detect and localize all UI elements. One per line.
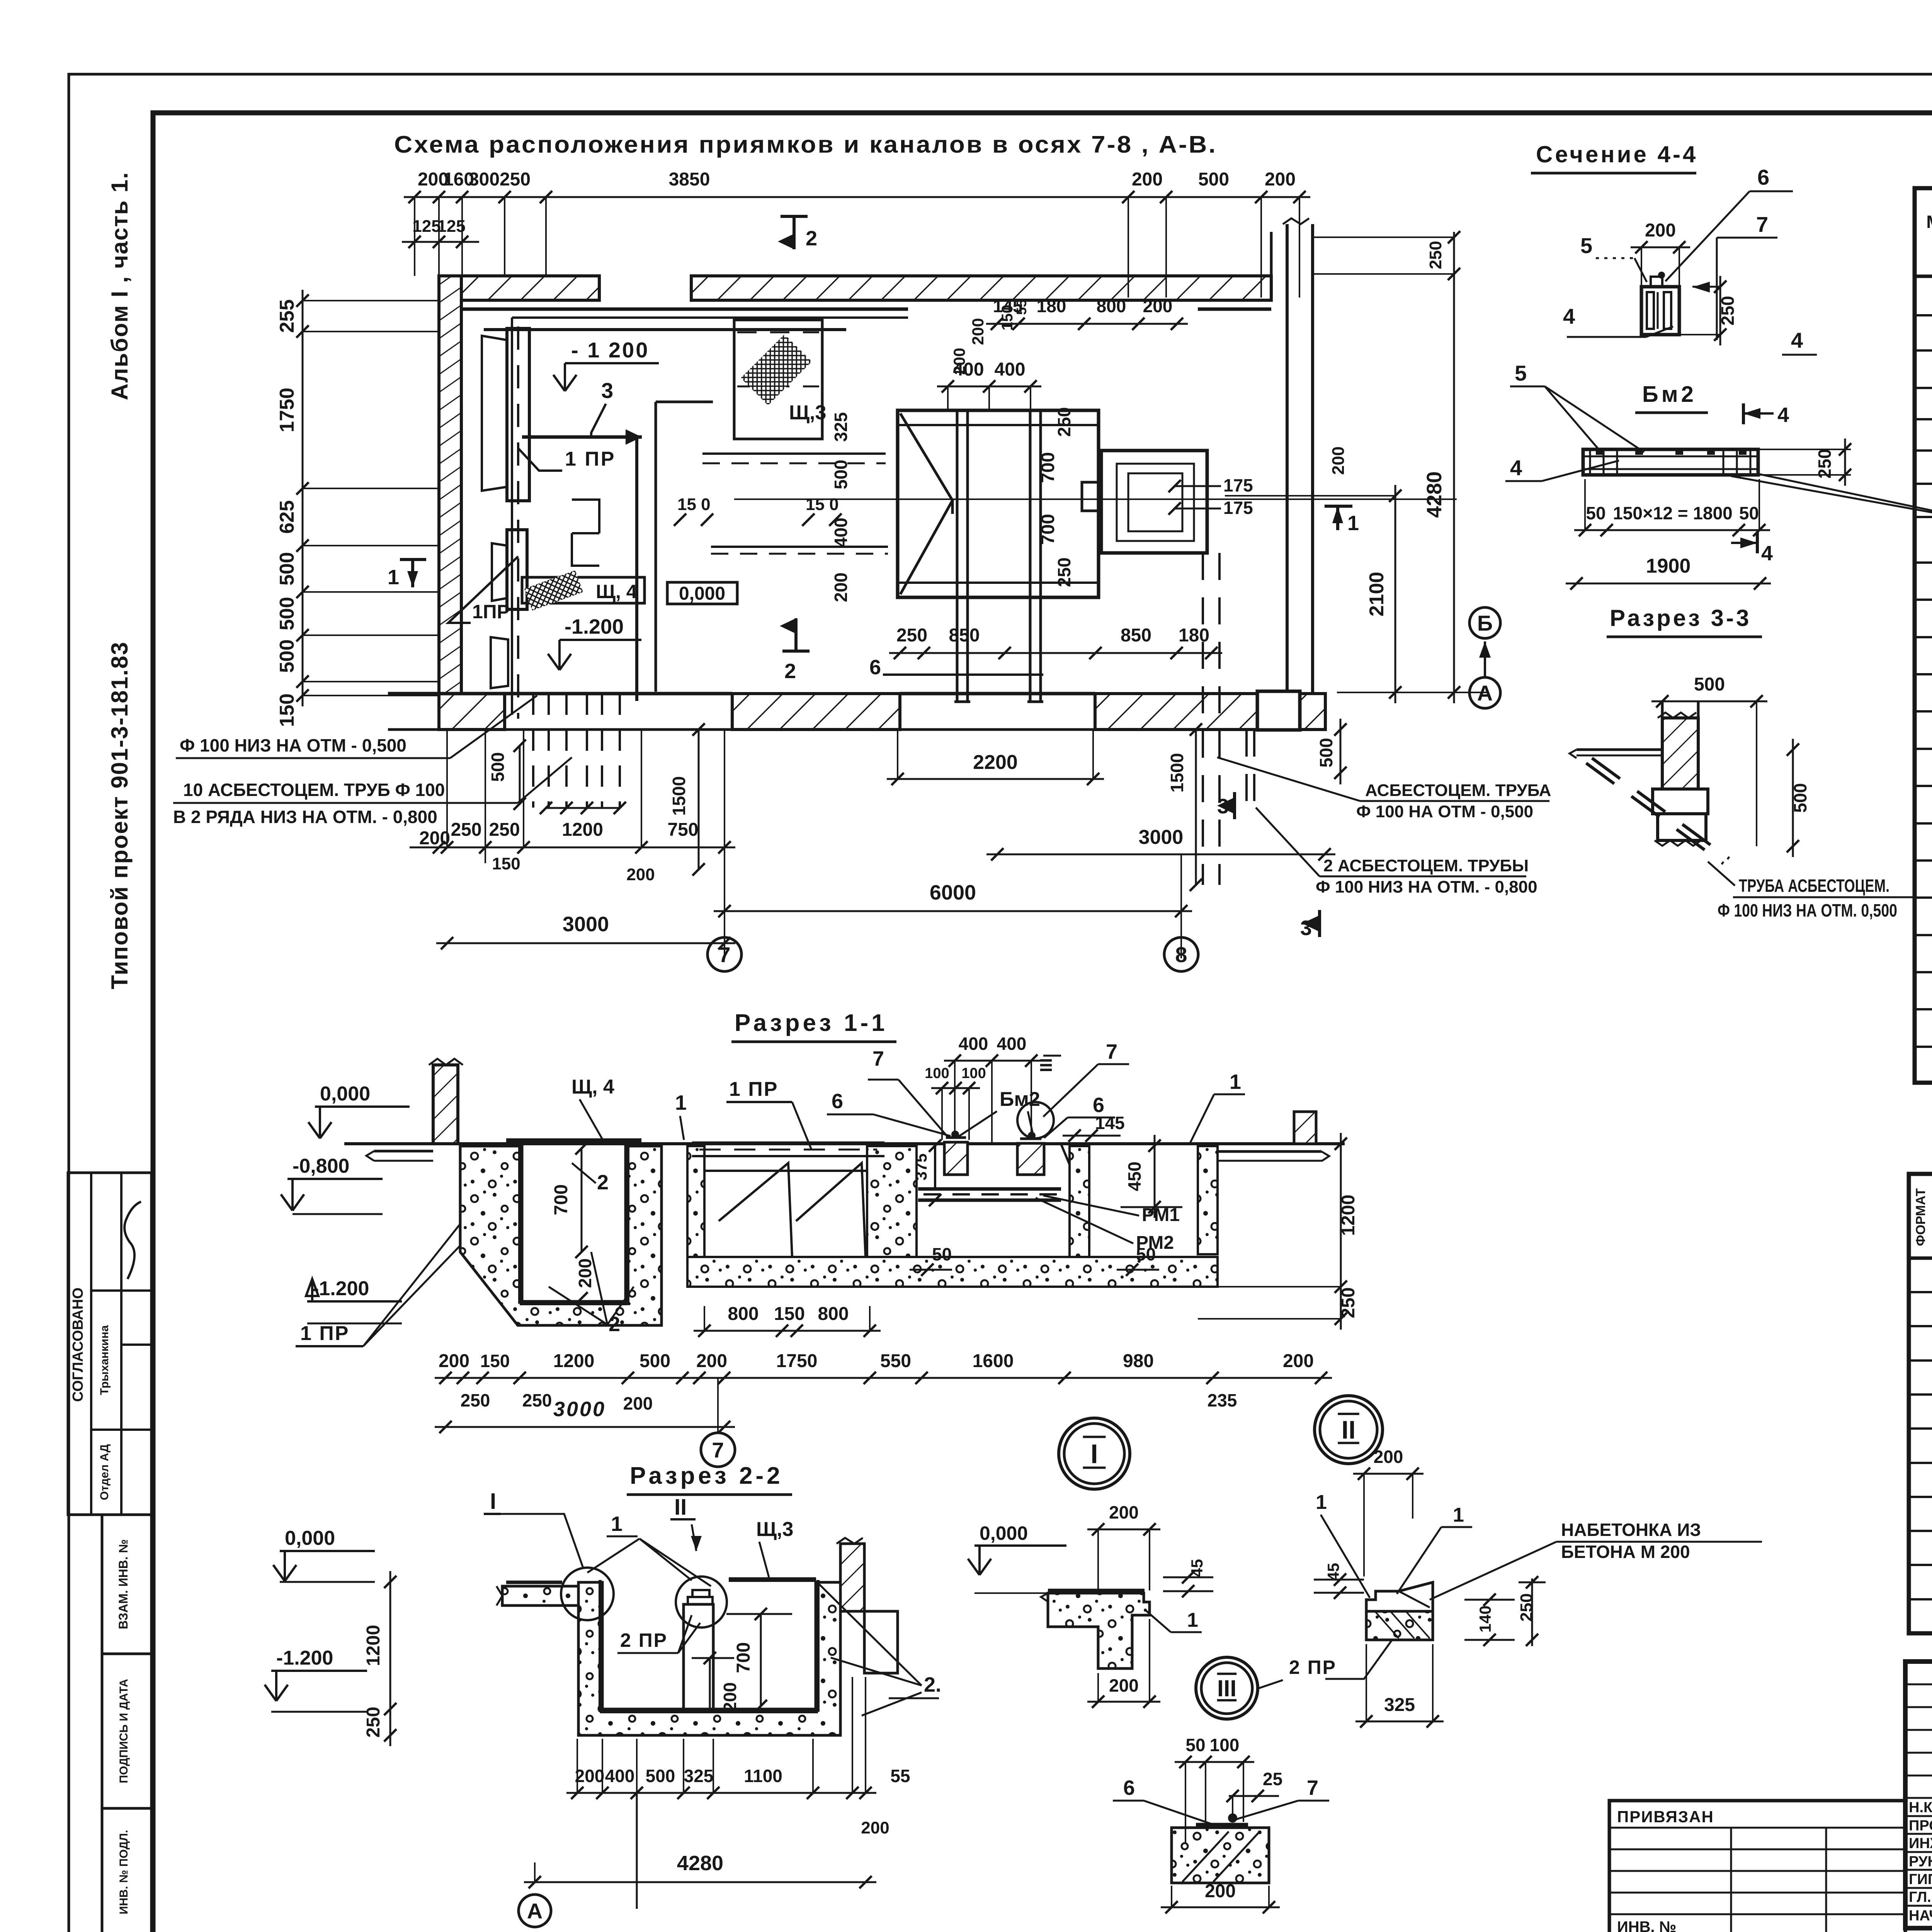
plan right pit notch — [1082, 482, 1101, 511]
svg-text:50: 50 — [1739, 503, 1759, 523]
svg-text:200: 200 — [1329, 446, 1348, 474]
beam Bm2 section mark 4 top — [1742, 403, 1745, 424]
svg-text:1100: 1100 — [744, 1766, 782, 1786]
razrez 1-1 dim 800 150 800 — [694, 1330, 881, 1332]
plan panel Shch4 band — [522, 577, 645, 603]
svg-text:200: 200 — [861, 1818, 889, 1837]
svg-text:45: 45 — [1324, 1563, 1342, 1581]
plan channel pipes left pair — [956, 410, 959, 702]
margin stamp soglasovano box — [68, 1173, 151, 1515]
table2 grid — [1909, 1174, 1932, 1633]
svg-text:2100: 2100 — [1366, 572, 1388, 617]
svg-text:375: 375 — [912, 1153, 930, 1180]
svg-text:250: 250 — [500, 169, 531, 190]
svg-text:4: 4 — [1791, 328, 1803, 352]
svg-text:2 АСБЕСТОЦЕМ. ТРУБЫ: 2 АСБЕСТОЦЕМ. ТРУБЫ — [1323, 856, 1529, 875]
razrez 1-1 middle channel cover 1pr — [692, 1141, 884, 1145]
svg-text:4: 4 — [1761, 542, 1773, 565]
svg-text:-1.200: -1.200 — [312, 1277, 369, 1300]
svg-text:150×12 = 1800: 150×12 = 1800 — [1613, 503, 1733, 523]
razrez 1-1 Bm2 channel box — [935, 1144, 1082, 1194]
svg-text:III: III — [1217, 1675, 1236, 1701]
title block name rows — [1905, 1815, 1932, 1817]
svg-text:4: 4 — [1510, 456, 1522, 480]
svg-text:Н.КОНТР.: Н.КОНТР. — [1909, 1799, 1932, 1816]
detail view III circle — [1196, 1657, 1258, 1719]
plan dim 250 850 850 180 — [889, 652, 1222, 654]
svg-text:1: 1 — [1187, 1609, 1198, 1631]
razrez 2-2 central pier — [684, 1604, 713, 1709]
svg-text:700: 700 — [551, 1184, 571, 1215]
svg-text:Сечение 4-4: Сечение 4-4 — [1536, 141, 1698, 167]
beam Bm2 section mark 4 bottom — [1756, 532, 1759, 553]
section 4-4 dim 200 — [1631, 247, 1690, 248]
svg-text:150: 150 — [774, 1304, 805, 1324]
svg-text:400: 400 — [994, 359, 1025, 380]
svg-text:1200: 1200 — [553, 1351, 595, 1371]
svg-text:300: 300 — [469, 169, 500, 190]
plan dim top chain — [404, 196, 1310, 198]
svg-text:250: 250 — [1517, 1593, 1536, 1621]
svg-text:325: 325 — [831, 412, 851, 442]
plan axis circle 8 — [1164, 937, 1198, 971]
razrez 1-1 middle channel braces — [719, 1163, 792, 1257]
svg-text:1500: 1500 — [1167, 753, 1187, 793]
svg-text:6: 6 — [869, 656, 881, 679]
svg-text:Бм2: Бм2 — [1000, 1088, 1040, 1111]
razrez 2-2 detail circle II mark — [676, 1577, 727, 1628]
svg-text:15 0: 15 0 — [806, 495, 839, 514]
plan panel Shch3 crosshatch blob — [741, 334, 812, 405]
svg-text:250: 250 — [896, 625, 927, 646]
plan dim 400 400 over channel — [937, 386, 1041, 388]
svg-text:980: 980 — [1123, 1351, 1154, 1371]
margin stamp inv podl box — [102, 1808, 151, 1932]
svg-text:1: 1 — [675, 1091, 687, 1114]
svg-text:II: II — [674, 1495, 687, 1520]
svg-text:1 ПР: 1 ПР — [300, 1322, 349, 1345]
svg-text:Щ,3: Щ,3 — [756, 1518, 793, 1541]
razrez 1-1 dim right 1200 250 — [1340, 1133, 1342, 1330]
svg-text:ИНВ. №: ИНВ. № — [1617, 1918, 1676, 1932]
svg-text:250: 250 — [1054, 407, 1074, 437]
svg-text:0,000: 0,000 — [980, 1522, 1028, 1544]
plan dim 145 180 800 200 row — [986, 323, 1188, 325]
svg-text:1: 1 — [611, 1512, 622, 1536]
svg-text:125: 125 — [412, 217, 440, 236]
margin stamp podpis box — [102, 1654, 151, 1808]
svg-text:Ф 100 НА ОТМ - 0,500: Ф 100 НА ОТМ - 0,500 — [1356, 802, 1533, 821]
razrez 2-2 pit inner outline — [599, 1580, 602, 1712]
svg-text:250: 250 — [1054, 558, 1074, 587]
svg-text:15 0: 15 0 — [677, 495, 711, 514]
svg-text:Разрез 3-3: Разрез 3-3 — [1610, 605, 1751, 631]
beam Bm2 dim 1900 — [1566, 583, 1771, 585]
svg-text:-0,800: -0,800 — [293, 1155, 349, 1177]
razrez 1-1 far pit walls — [1198, 1146, 1218, 1254]
svg-text:ВЗАМ. ИНВ. №: ВЗАМ. ИНВ. № — [116, 1539, 130, 1629]
razrez 2-2 cover plate top — [729, 1577, 816, 1582]
svg-text:500: 500 — [1198, 169, 1229, 190]
svg-text:РМ1: РМ1 — [1142, 1205, 1180, 1225]
plan wall bottom edge lines — [388, 692, 732, 696]
razrez 1-1 middle channel right wall — [867, 1146, 917, 1257]
svg-text:800: 800 — [1097, 296, 1126, 316]
svg-text:200: 200 — [1265, 169, 1296, 190]
svg-text:850: 850 — [949, 625, 980, 646]
svg-text:4280: 4280 — [1423, 471, 1446, 518]
svg-text:2: 2 — [784, 660, 796, 683]
plan axis circle 7 — [707, 937, 742, 971]
detail II drawing — [1366, 1582, 1433, 1611]
razrez 2-2 pit concrete U — [578, 1582, 840, 1735]
svg-text:200: 200 — [626, 865, 655, 884]
svg-text:700: 700 — [1038, 452, 1058, 483]
svg-text:500: 500 — [831, 460, 851, 490]
svg-text:400: 400 — [997, 1034, 1027, 1054]
svg-text:250: 250 — [1718, 296, 1738, 326]
svg-text:1 ПР: 1 ПР — [729, 1078, 778, 1100]
svg-text:ПРИВЯЗАН: ПРИВЯЗАН — [1617, 1808, 1714, 1826]
svg-text:700: 700 — [733, 1642, 754, 1673]
svg-text:МАРКА: МАРКА — [1926, 212, 1932, 232]
section 4-4 column detail — [1641, 287, 1679, 335]
svg-text:1200: 1200 — [562, 820, 603, 840]
svg-text:Отдел АД: Отдел АД — [98, 1444, 111, 1500]
svg-text:ГИП: ГИП — [1909, 1871, 1932, 1888]
svg-text:325: 325 — [684, 1766, 714, 1786]
svg-text:1: 1 — [388, 566, 399, 589]
plan axis circles B A — [1469, 607, 1500, 638]
detail view I circle — [1059, 1418, 1130, 1489]
svg-text:ТРУБА АСБЕСТОЦЕМ.: ТРУБА АСБЕСТОЦЕМ. — [1739, 876, 1889, 896]
svg-text:2: 2 — [597, 1171, 609, 1194]
razrez 2-2 dim 4280 — [524, 1881, 876, 1883]
svg-text:100: 100 — [961, 1065, 986, 1082]
svg-text:А: А — [1477, 681, 1493, 705]
svg-text:Альбом I , часть 1.: Альбом I , часть 1. — [107, 172, 133, 400]
svg-text:180: 180 — [1037, 296, 1066, 316]
svg-text:500: 500 — [276, 597, 298, 631]
svg-text:200: 200 — [1132, 169, 1163, 190]
svg-text:800: 800 — [818, 1304, 849, 1324]
svg-text:1: 1 — [1453, 1504, 1464, 1526]
svg-text:5: 5 — [1515, 361, 1527, 385]
plan dim 3000 right — [986, 854, 1335, 855]
razrez 1-1 Bm2 zone beams — [944, 1142, 968, 1175]
svg-text:- 1 200: - 1 200 — [571, 338, 649, 362]
svg-text:500: 500 — [276, 552, 298, 586]
beam Bm2 dim 250 — [1844, 439, 1846, 486]
plan beam dashed lines across — [702, 452, 886, 455]
razrez 1-1 left floor ledge — [374, 1150, 433, 1153]
svg-text:250: 250 — [363, 1707, 384, 1738]
svg-text:250: 250 — [1338, 1287, 1359, 1318]
plan section mark 2 top — [793, 216, 796, 249]
plan lintel 1pr lower — [491, 637, 508, 688]
razrez 2-2 left ledge slab — [502, 1586, 578, 1605]
svg-text:1750: 1750 — [776, 1351, 818, 1371]
razrez 1-1 middle channel left wall — [687, 1146, 704, 1257]
plan dim left vertical chain — [302, 290, 304, 706]
svg-text:7: 7 — [712, 1438, 724, 1462]
plan channel pipes right pair — [1029, 410, 1032, 702]
svg-text:250: 250 — [1815, 449, 1835, 479]
svg-text:10 АСБЕСТОЦЕМ. ТРУБ Ф 100: 10 АСБЕСТОЦЕМ. ТРУБ Ф 100 — [183, 780, 445, 800]
svg-text:6: 6 — [1093, 1094, 1104, 1117]
svg-text:500: 500 — [639, 1351, 670, 1371]
svg-text:7: 7 — [718, 942, 730, 967]
svg-text:500: 500 — [1694, 674, 1725, 695]
section 4-4 dim 250 — [1719, 276, 1721, 345]
svg-text:1200: 1200 — [363, 1625, 384, 1666]
razrez 3-3 floor line — [1577, 748, 1662, 751]
razrez 2-2 dim 1200 250 — [389, 1571, 391, 1746]
plan level 0.000 box — [667, 582, 737, 604]
svg-text:1500: 1500 — [669, 776, 689, 816]
plan wall right column double line — [1286, 224, 1289, 726]
plan section mark 1 right — [1336, 506, 1339, 530]
svg-text:1: 1 — [1347, 512, 1359, 535]
svg-text:II: II — [1342, 1415, 1356, 1444]
svg-text:200: 200 — [1645, 220, 1676, 241]
svg-text:6: 6 — [1123, 1776, 1135, 1799]
svg-text:ПОДПИСЬ И ДАТА: ПОДПИСЬ И ДАТА — [117, 1679, 130, 1783]
svg-text:625: 625 — [276, 500, 298, 534]
margin stamp signature squiggle — [124, 1202, 141, 1279]
razrez 1-1 dim 3000 — [435, 1426, 735, 1428]
svg-text:175: 175 — [1223, 475, 1253, 495]
svg-text:Разрез 1-1: Разрез 1-1 — [735, 1010, 888, 1036]
razrez 1-1 small circle detail mark — [1017, 1102, 1054, 1138]
svg-text:175: 175 — [1223, 498, 1253, 518]
detail 6-7 dim 200 — [1161, 1906, 1280, 1908]
plan channel inner horizontal lines — [898, 424, 1099, 426]
svg-text:150: 150 — [276, 694, 298, 727]
svg-text:Ф 100 НИЗ НА ОТМ. 0,500: Ф 100 НИЗ НА ОТМ. 0,500 — [1718, 900, 1897, 920]
svg-text:6: 6 — [1757, 165, 1769, 189]
detail view II circle — [1315, 1396, 1383, 1464]
svg-text:200: 200 — [575, 1259, 595, 1288]
svg-text:1200: 1200 — [1338, 1195, 1359, 1236]
svg-text:Типовой проект 901-3-181.83: Типовой проект 901-3-181.83 — [107, 641, 133, 989]
svg-text:Трыханкина: Трыханкина — [98, 1325, 111, 1395]
svg-text:2 ПР: 2 ПР — [1289, 1656, 1337, 1678]
svg-text:125: 125 — [437, 217, 465, 236]
svg-text:ИНВ. № ПОДЛ.: ИНВ. № ПОДЛ. — [117, 1830, 130, 1915]
svg-text:400: 400 — [605, 1766, 635, 1786]
svg-text:НАЧ. ОТД.: НАЧ. ОТД. — [1909, 1908, 1932, 1924]
razrez 3-3 dim 500 top — [1651, 701, 1767, 702]
razrez 3-3 dashed pipe — [1586, 763, 1723, 864]
razrez 3-3 foundation — [1653, 789, 1708, 814]
plan right pit outer — [1101, 451, 1207, 553]
beam Bm2 bar — [1583, 449, 1758, 475]
svg-text:400: 400 — [959, 1034, 988, 1054]
svg-text:500: 500 — [646, 1766, 675, 1786]
plan channel funnel lines — [900, 413, 952, 594]
title block aux table privyazan — [1609, 1801, 1905, 1932]
svg-text:500: 500 — [488, 752, 508, 782]
svg-text:200: 200 — [1374, 1447, 1403, 1467]
svg-text:250: 250 — [522, 1390, 552, 1410]
svg-text:500: 500 — [1316, 738, 1336, 768]
svg-text:50: 50 — [1136, 1244, 1156, 1264]
svg-text:200: 200 — [1109, 1502, 1139, 1522]
plan channel big rectangle — [898, 410, 1099, 597]
svg-text:250: 250 — [1426, 241, 1445, 269]
detail I corner drawing — [1048, 1593, 1150, 1668]
svg-text:500: 500 — [1790, 783, 1810, 813]
plan dim 2200 — [887, 778, 1104, 780]
svg-text:255: 255 — [276, 299, 298, 333]
razrez 2-2 wall right above — [840, 1544, 864, 1611]
svg-text:ФОРМАТ: ФОРМАТ — [1913, 1188, 1928, 1246]
svg-text:250: 250 — [451, 820, 481, 840]
svg-text:200: 200 — [419, 828, 450, 849]
svg-text:235: 235 — [1207, 1390, 1237, 1410]
razrez 1-1 pit1 cover plate — [506, 1138, 641, 1143]
svg-text:Щ, 4: Щ, 4 — [596, 581, 637, 602]
svg-text:ИНЖЕНЕР: ИНЖЕНЕР — [1909, 1835, 1932, 1852]
plan section mark 2 bottom — [794, 618, 798, 651]
plan wall left hatched column — [439, 276, 461, 716]
svg-text:200: 200 — [1205, 1881, 1236, 1901]
svg-text:50: 50 — [1586, 503, 1605, 523]
svg-text:7: 7 — [1756, 212, 1768, 236]
svg-text:700: 700 — [1038, 514, 1058, 545]
razrez 1-1 dim 450 — [1154, 1135, 1156, 1218]
svg-text:В 2 РЯДА НИЗ НА ОТМ. - 0,80: В 2 РЯДА НИЗ НА ОТМ. - 0,800 — [173, 807, 437, 827]
plan dim 125 125 — [404, 241, 473, 243]
title block outer — [1905, 1662, 1932, 1928]
razrez 1-1 right wall column — [1070, 1146, 1089, 1257]
margin stamp vzam inv box — [102, 1515, 151, 1654]
razrez 1-1 left wall above ground — [433, 1065, 458, 1144]
plan lintel 1pr upper — [507, 328, 529, 501]
beam Bm2 dim 150x12 — [1574, 529, 1770, 531]
svg-text:I: I — [1090, 1439, 1098, 1469]
svg-text:3000: 3000 — [563, 913, 609, 936]
svg-text:200: 200 — [623, 1393, 653, 1413]
svg-text:6: 6 — [832, 1090, 843, 1113]
detail 6-7 dims 50 100 25 — [1175, 1761, 1254, 1763]
svg-text:850: 850 — [1121, 625, 1151, 646]
razrez 3-3 wall column — [1662, 718, 1698, 789]
svg-text:6000: 6000 — [930, 881, 976, 904]
svg-text:200: 200 — [1283, 1351, 1314, 1371]
svg-text:0,000: 0,000 — [285, 1527, 335, 1549]
svg-text:А: А — [527, 1899, 543, 1923]
plan dashed pipe pair right short — [1245, 730, 1248, 811]
title block left thin rows — [1905, 1684, 1932, 1685]
svg-text:I: I — [490, 1489, 496, 1514]
plan right vertical dim 4280 — [1453, 263, 1455, 703]
svg-text:5: 5 — [1580, 233, 1592, 258]
plan dashed pipe pair right — [1202, 553, 1204, 885]
svg-text:4280: 4280 — [677, 1852, 723, 1875]
plan step mark polyline — [572, 500, 599, 566]
svg-text:1: 1 — [1230, 1070, 1241, 1094]
svg-text:Ф 100 НИЗ НА ОТМ. - 0,800: Ф 100 НИЗ НА ОТМ. - 0,800 — [1316, 878, 1537, 896]
detail II dim 200 top — [1353, 1473, 1423, 1475]
svg-text:200: 200 — [720, 1682, 740, 1712]
razrez 1-1 pit1 concrete walls — [460, 1146, 662, 1325]
svg-text:1750: 1750 — [276, 388, 298, 432]
svg-text:55: 55 — [890, 1766, 910, 1786]
plan dim bottom chain 200 250 250 1200 750 — [436, 847, 735, 849]
svg-text:100: 100 — [925, 1065, 949, 1082]
razrez 1-1 dim 100 100 — [931, 1087, 980, 1089]
plan inner room lines — [484, 328, 846, 331]
svg-text:55: 55 — [1014, 299, 1029, 315]
razrez 1-1 main dim chain — [435, 1377, 1332, 1379]
svg-text:200: 200 — [696, 1351, 727, 1371]
table1 grid — [1915, 188, 1932, 1083]
plan wall top hatched right segment — [691, 276, 1271, 300]
plan dim 3000 left — [436, 942, 735, 944]
razrez 1-1 dim 400 400 top — [944, 1060, 1042, 1062]
svg-text:150: 150 — [492, 854, 520, 873]
svg-text:325: 325 — [1384, 1695, 1415, 1715]
razrez 1-1 bottom slab concrete — [687, 1257, 1218, 1287]
svg-text:БЕТОНА М 200: БЕТОНА М 200 — [1561, 1542, 1690, 1562]
plan section mark 1 left — [411, 558, 414, 587]
svg-text:150: 150 — [480, 1351, 510, 1371]
svg-text:НАБЕТОНКА ИЗ: НАБЕТОНКА ИЗ — [1561, 1520, 1701, 1540]
svg-text:550: 550 — [880, 1351, 911, 1371]
razrez 1-1 far right wall above ground — [1294, 1112, 1316, 1144]
plan lintel 1pr middle — [507, 530, 527, 609]
svg-text:4: 4 — [1777, 403, 1789, 427]
svg-text:-1.200: -1.200 — [565, 615, 624, 638]
plan small pier square — [1257, 691, 1300, 730]
plan wall bottom hatched segments — [439, 694, 505, 730]
svg-text:200: 200 — [1109, 1675, 1139, 1696]
svg-text:3: 3 — [601, 378, 613, 403]
svg-text:РУК. ГР.: РУК. ГР. — [1909, 1854, 1932, 1870]
svg-text:200: 200 — [969, 318, 987, 345]
svg-text:200: 200 — [831, 573, 851, 602]
svg-text:100: 100 — [1210, 1735, 1240, 1755]
svg-text:25: 25 — [1263, 1769, 1282, 1789]
svg-text:АСБЕСТОЦЕМ. ТРУБА: АСБЕСТОЦЕМ. ТРУБА — [1365, 781, 1551, 800]
svg-text:ГЛ. КОНСТ.: ГЛ. КОНСТ. — [1909, 1889, 1932, 1905]
razrez 1-1 Bm2 beam under — [918, 1187, 1061, 1191]
svg-text:ПРОВЕР: ПРОВЕР — [1909, 1818, 1932, 1834]
svg-text:III: III — [1037, 1058, 1056, 1072]
svg-text:2: 2 — [806, 227, 817, 250]
razrez 1-1 axis circle 7 — [701, 1433, 735, 1467]
svg-text:50: 50 — [932, 1244, 952, 1264]
plan wall top hatched left segment — [439, 276, 599, 300]
svg-text:500: 500 — [276, 639, 298, 673]
svg-text:200: 200 — [439, 1351, 469, 1371]
svg-text:200: 200 — [1143, 296, 1173, 316]
svg-text:3850: 3850 — [669, 169, 710, 190]
svg-text:3000: 3000 — [1139, 826, 1184, 849]
svg-text:7: 7 — [1106, 1040, 1117, 1063]
plan right pit inner dashed — [1117, 464, 1194, 541]
svg-text:1ПР: 1ПР — [472, 601, 510, 622]
svg-text:450: 450 — [1124, 1162, 1145, 1191]
svg-text:7: 7 — [872, 1047, 884, 1070]
svg-text:0,000: 0,000 — [320, 1083, 370, 1105]
svg-text:180: 180 — [1179, 625, 1209, 646]
svg-text:2 ПР: 2 ПР — [620, 1629, 668, 1651]
svg-text:СОГЛАСОВАНО: СОГЛАСОВАНО — [70, 1287, 86, 1402]
svg-text:0,000: 0,000 — [679, 583, 725, 604]
